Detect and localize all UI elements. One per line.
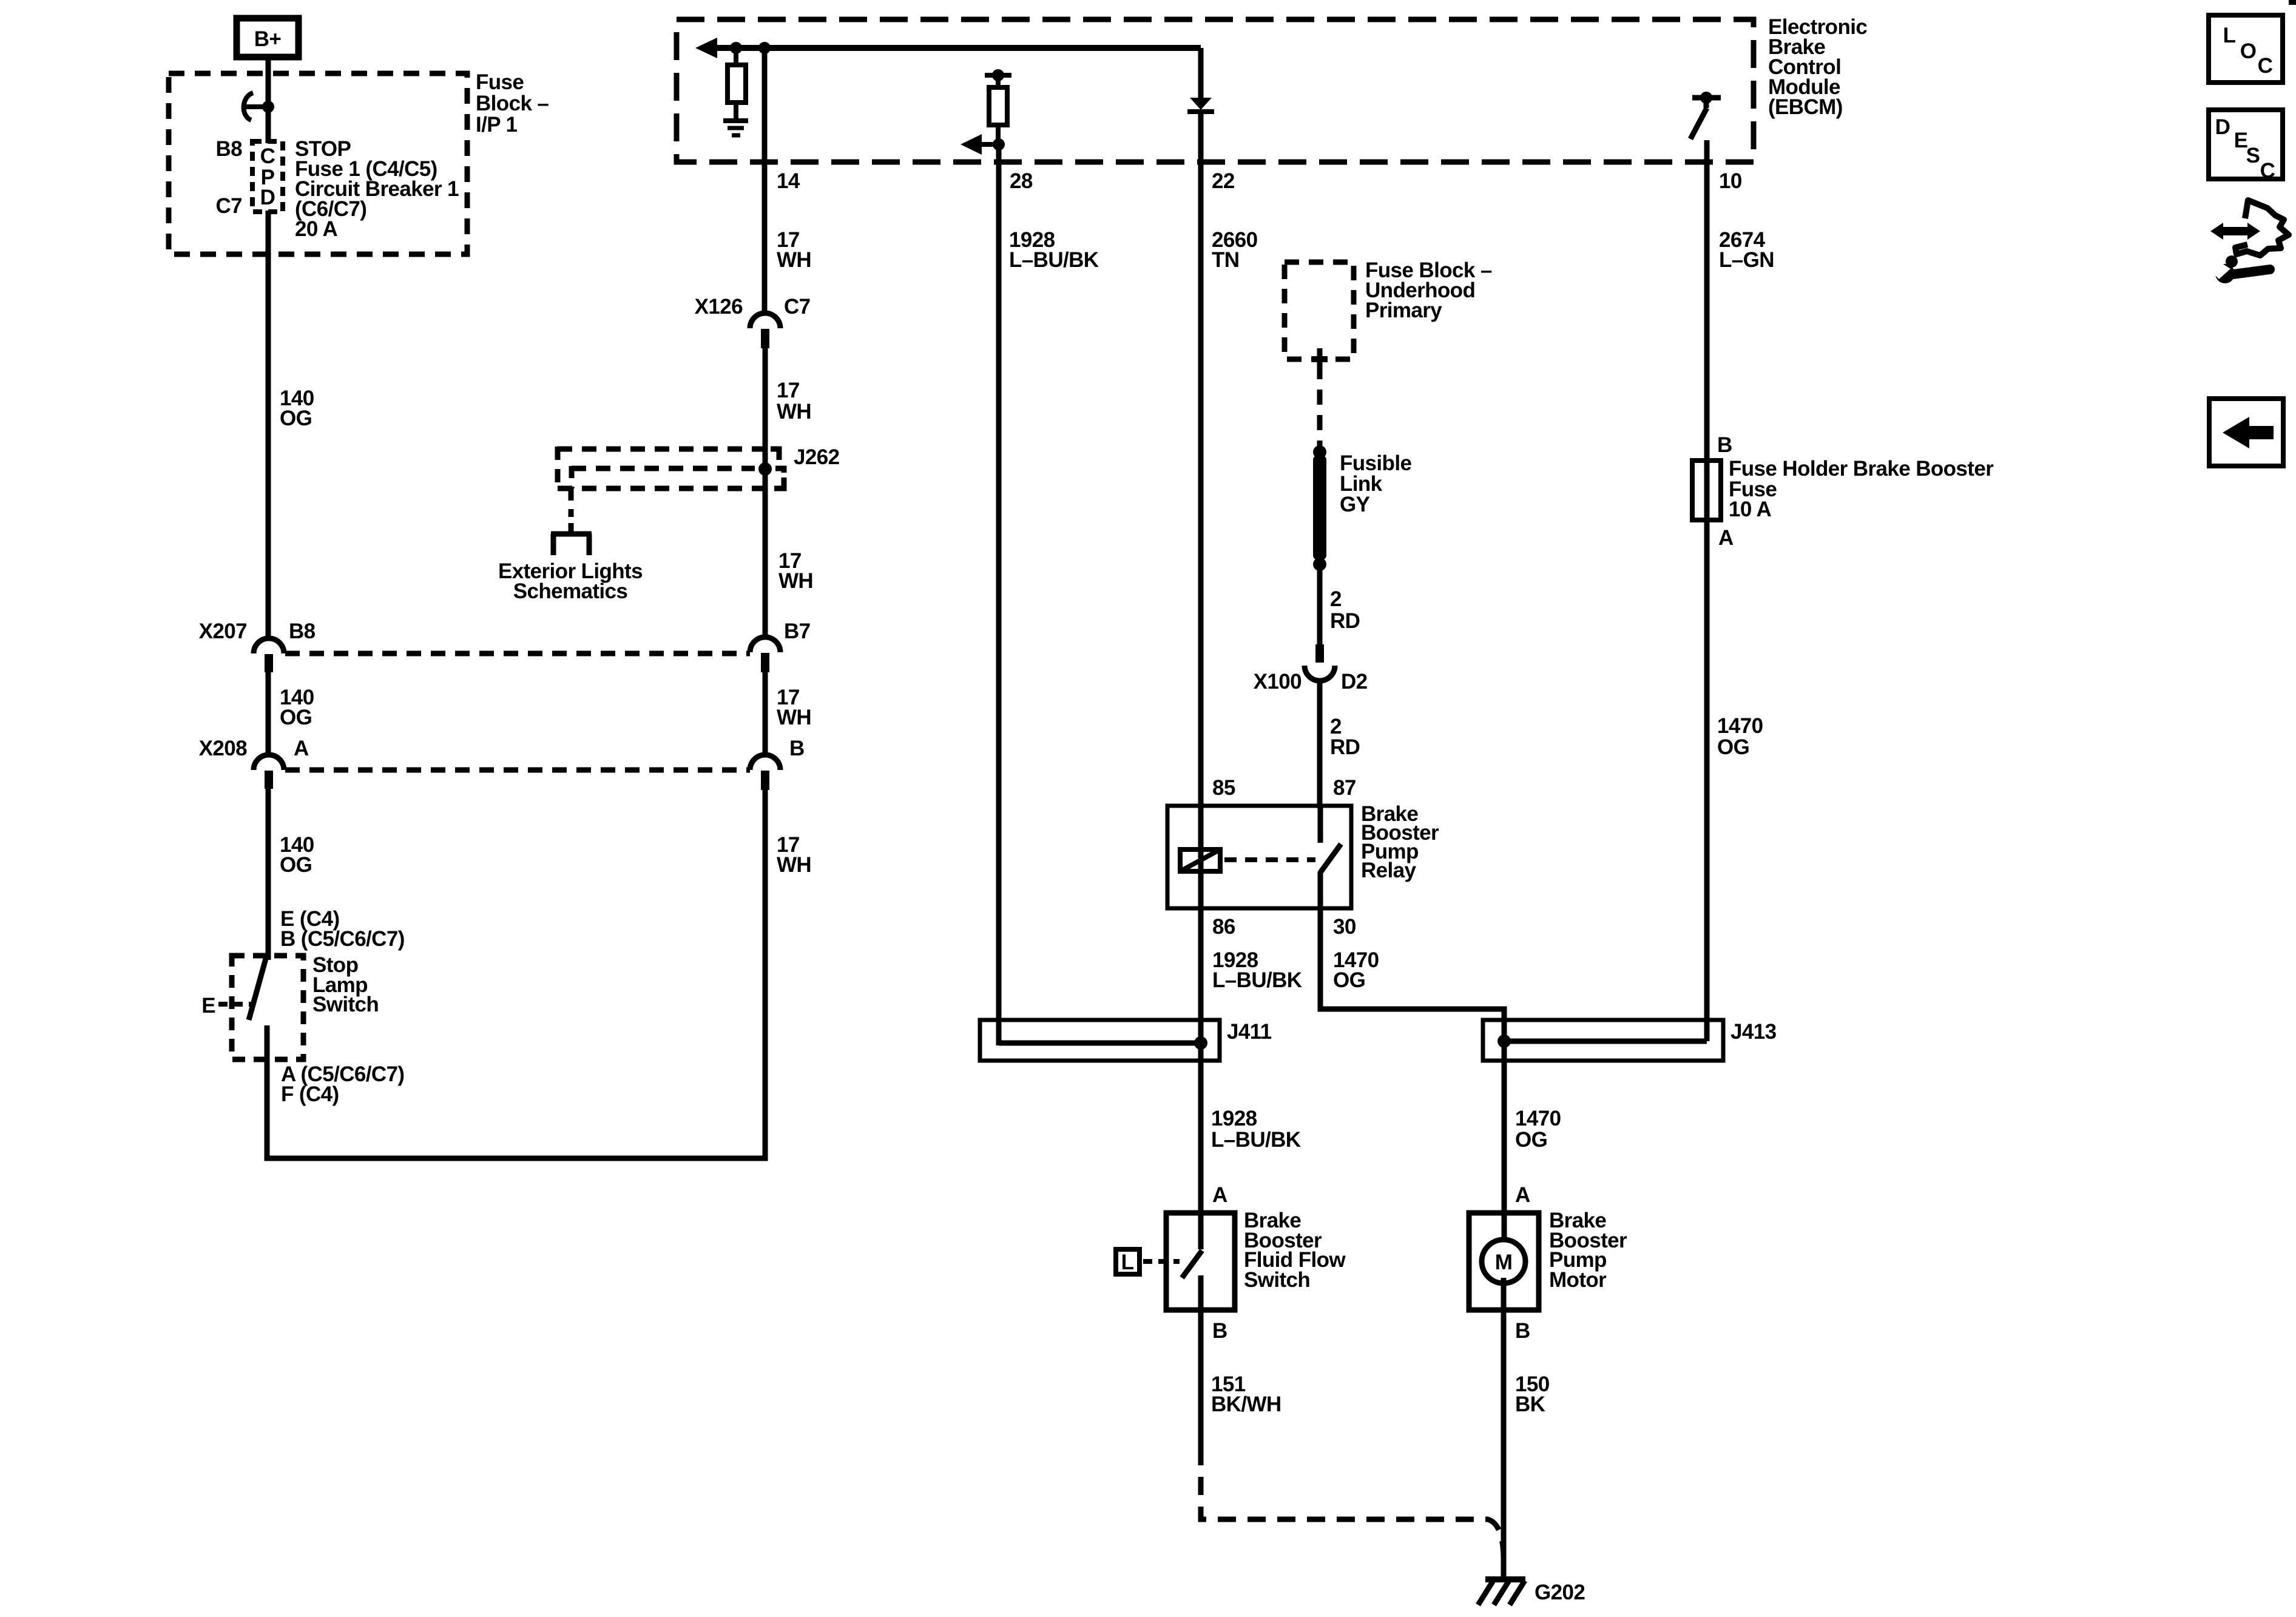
fuse holder brake booster fuse 10A [1692, 461, 1721, 520]
wire B+ to fuse block [266, 59, 271, 107]
junction node at circuit breaker [262, 101, 274, 113]
fuse block underhood primary dashed box [1285, 262, 1354, 359]
connector X126 pin C7 [750, 313, 780, 348]
node above fusible link [1313, 445, 1326, 459]
wire label 1928 L-BU/BK [1009, 228, 1099, 272]
wire 140 OG from fuse block to X207 [266, 211, 271, 640]
label Fuse Block I/P 1 [476, 70, 549, 137]
svg-text:D2: D2 [1341, 670, 1368, 694]
wire label 2674 L-GN [1719, 228, 1774, 272]
relay contact switch [1320, 806, 1341, 908]
wire down to fuse element [266, 107, 271, 143]
svg-text:Block –: Block – [476, 92, 549, 115]
terminal tick on underhood box [1312, 348, 1328, 364]
dashed wire to G202 [1201, 1447, 1504, 1559]
node pin 28 branch [993, 138, 1005, 150]
svg-text:(EBCM): (EBCM) [1768, 95, 1843, 119]
svg-text:OG: OG [280, 853, 312, 877]
back arrow icon [2209, 399, 2283, 466]
label Brake Booster Pump Relay [1361, 802, 1439, 882]
connector repair icon shell outline [2235, 200, 2289, 255]
connector X100 pin D2 [1305, 644, 1335, 681]
svg-text:20 A: 20 A [295, 217, 338, 241]
svg-text:J411: J411 [1227, 1020, 1272, 1044]
svg-text:L–BU/BK: L–BU/BK [1211, 1128, 1301, 1152]
node on bus at pin14 branch [758, 42, 771, 54]
svg-text:Switch: Switch [1244, 1268, 1310, 1292]
svg-text:30: 30 [1333, 915, 1356, 939]
circuit breaker 1 hook symbol [244, 93, 268, 120]
wire stop lamp switch A down and right [267, 784, 765, 1158]
internal bus wire with arrow [695, 38, 1201, 58]
wire through relay coil pin 85 to 86 [1198, 806, 1204, 908]
connector X208 pin A [254, 755, 284, 789]
svg-text:C: C [2258, 54, 2273, 78]
relay coil to contact dashed link [1224, 857, 1315, 862]
svg-text:17: 17 [777, 379, 800, 402]
ground G202 [1478, 1579, 1525, 1605]
node J262 [758, 462, 772, 476]
svg-text:J262: J262 [794, 445, 840, 469]
svg-text:L: L [2223, 24, 2236, 47]
svg-text:Switch: Switch [312, 993, 379, 1016]
fluid flow switch blade [1182, 1251, 1202, 1278]
fuse C-P-D element dashed box [252, 141, 283, 212]
fusible link GY element [1313, 455, 1326, 560]
svg-text:L–BU/BK: L–BU/BK [1009, 248, 1099, 272]
wire 150 BK from motor pin B to ground [1501, 1278, 1507, 1579]
dashed wire underhood to fusible link [1317, 364, 1323, 448]
brake booster pump motor box [1469, 1213, 1539, 1310]
svg-text:C: C [260, 144, 275, 168]
svg-text:B8: B8 [215, 137, 242, 161]
svg-text:14: 14 [777, 169, 800, 193]
pin label A (C5/C6/C7) F (C4) [281, 1062, 404, 1106]
label Brake Booster Fluid Flow Switch [1244, 1209, 1346, 1292]
fluid level sensor L box [1116, 1249, 1180, 1274]
wire EBCM pin 22 down to relay pin 85 [1198, 113, 1204, 808]
svg-text:S: S [2246, 144, 2260, 167]
connector repair icon wrench [2207, 255, 2270, 283]
svg-text:1928: 1928 [1211, 1107, 1257, 1130]
svg-text:J413: J413 [1730, 1020, 1777, 1044]
svg-text:B: B [1717, 433, 1732, 457]
svg-text:22: 22 [1212, 169, 1235, 193]
stop lamp switch blade [249, 959, 266, 1020]
splice J262 outer dashed box [558, 447, 779, 488]
wire label 1928 L-BU/BK below relay [1212, 948, 1302, 992]
internal signal arrow pin 28 [961, 134, 999, 155]
svg-text:B: B [1515, 1319, 1530, 1343]
wire label 17 WH [777, 228, 811, 272]
svg-text:B: B [789, 737, 805, 760]
svg-text:OG: OG [280, 407, 312, 430]
wire label 140 OG [280, 387, 314, 430]
internal ground [723, 121, 748, 135]
svg-text:86: 86 [1212, 915, 1235, 939]
wire label 2660 TN [1212, 228, 1258, 272]
svg-text:WH: WH [777, 248, 811, 272]
EBCM dashed box [677, 19, 1754, 162]
label Stop Lamp Switch [312, 953, 379, 1016]
svg-text:1470: 1470 [1717, 714, 1763, 738]
fuse block I/P 1 dashed box [169, 73, 467, 254]
label Brake Booster Pump Motor [1549, 1209, 1627, 1292]
wire 17 WH B7 to B [763, 672, 768, 756]
wire label 17 WH above stop lamp return [777, 833, 811, 877]
dashed harness line X208 to B [285, 768, 750, 773]
wire label 1928 L-BU/BK below J411 [1211, 1107, 1301, 1152]
svg-text:GY: GY [1340, 493, 1370, 516]
page edge mark [2289, 0, 2296, 5]
DESC icon [2209, 110, 2283, 183]
svg-text:1470: 1470 [1515, 1107, 1561, 1130]
dashed stub to exterior lights [569, 488, 574, 517]
brake booster fluid flow switch box [1166, 1213, 1235, 1310]
svg-text:C7: C7 [784, 295, 811, 319]
connector X207 pin B8 [254, 638, 284, 672]
svg-text:L–BU/BK: L–BU/BK [1212, 968, 1302, 992]
svg-text:B8: B8 [289, 619, 316, 643]
LOC icon [2209, 15, 2283, 83]
motor M circle [1482, 1240, 1525, 1283]
wire 2 RD X100 to relay pin 87 [1317, 680, 1323, 808]
svg-text:10 A: 10 A [1729, 498, 1772, 521]
svg-text:X126: X126 [695, 295, 743, 319]
svg-text:BK: BK [1515, 1393, 1545, 1416]
wire label 1470 OG below relay [1333, 948, 1379, 992]
node below fusible link [1313, 558, 1326, 571]
svg-text:85: 85 [1212, 776, 1235, 800]
internal diode pin 22 [1187, 48, 1214, 112]
splice J413 box [1483, 1020, 1723, 1061]
svg-text:A: A [1212, 1183, 1227, 1207]
wire 140 OG X208 to stop lamp switch [266, 789, 271, 960]
label Fusible Link GY [1340, 451, 1411, 516]
svg-text:L: L [1121, 1251, 1134, 1274]
wire label 1470 OG below J413 [1515, 1107, 1561, 1152]
label Exterior Lights Schematics [498, 559, 643, 603]
svg-text:Fuse: Fuse [476, 70, 524, 94]
relay coil [1180, 849, 1220, 871]
label Electronic Brake Control Module (EBCM) [1768, 15, 1867, 119]
svg-text:28: 28 [1010, 169, 1033, 193]
wire label 1470 OG right column [1717, 714, 1763, 759]
svg-text:E: E [201, 994, 215, 1018]
stop lamp switch dashed box [232, 956, 303, 1059]
svg-text:WH: WH [777, 853, 811, 877]
svg-text:10: 10 [1719, 169, 1742, 193]
dashed harness line X207 to B7 [285, 651, 750, 657]
B+ battery terminal [237, 18, 299, 57]
label Fuse Block Underhood Primary [1365, 258, 1492, 322]
wire 151 BK/WH from switch pin B [1198, 1310, 1204, 1447]
svg-text:B+: B+ [254, 27, 282, 51]
internal switch pin 10 [1690, 92, 1721, 139]
brake booster pump relay box [1167, 806, 1351, 908]
svg-text:TN: TN [1212, 248, 1239, 272]
svg-text:Primary: Primary [1365, 299, 1442, 322]
svg-text:B (C5/C6/C7): B (C5/C6/C7) [280, 927, 405, 951]
svg-text:2: 2 [1330, 587, 1342, 611]
svg-text:RD: RD [1330, 735, 1360, 759]
wire 2 RD fusible link to X100 [1317, 564, 1323, 644]
svg-text:D: D [2215, 115, 2230, 139]
exterior lights fork symbol [551, 523, 592, 555]
connector B7 [750, 637, 780, 672]
wire relay pin 30 down right to J413 [1320, 908, 1504, 1249]
svg-text:OG: OG [280, 706, 312, 729]
svg-text:B7: B7 [784, 619, 811, 643]
wire EBCM pin 28 down to J411 [996, 144, 1002, 1045]
svg-text:M: M [1495, 1251, 1513, 1274]
svg-text:Schematics: Schematics [513, 579, 628, 603]
internal resistor to ground [728, 48, 746, 120]
fluid flow switch lower contact [1198, 1275, 1204, 1310]
node on bus [730, 42, 742, 54]
svg-text:87: 87 [1333, 776, 1356, 800]
wire 140 OG X207 to X208 [266, 672, 271, 756]
svg-text:X207: X207 [199, 619, 247, 643]
pin label E (C4) B (C5/C6/C7) [280, 907, 405, 951]
svg-text:X208: X208 [199, 737, 247, 760]
svg-text:Relay: Relay [1361, 859, 1417, 882]
svg-text:L–GN: L–GN [1719, 248, 1774, 272]
stop lamp switch actuator E [201, 994, 251, 1018]
svg-text:BK/WH: BK/WH [1211, 1393, 1281, 1416]
svg-text:RD: RD [1330, 609, 1360, 633]
svg-text:OG: OG [1717, 735, 1749, 759]
splice J411 box [980, 1020, 1220, 1061]
svg-text:G202: G202 [1535, 1581, 1585, 1604]
svg-text:D: D [260, 186, 275, 209]
svg-text:I/P 1: I/P 1 [476, 113, 517, 137]
svg-text:A: A [1718, 526, 1734, 550]
svg-text:X100: X100 [1254, 670, 1302, 694]
stop lamp switch lower contact [265, 1025, 270, 1059]
svg-text:F (C4): F (C4) [281, 1082, 339, 1106]
svg-text:WH: WH [777, 400, 811, 424]
splice J262 inner dashed box [558, 466, 784, 488]
wire EBCM pin 14 [762, 48, 768, 314]
internal pull-up resistor pin 28 [985, 69, 1011, 144]
svg-text:A: A [294, 737, 309, 760]
wire relay pin 86 down to J411 and switch [1198, 908, 1204, 1249]
wire 17 WH X126 to J262 [763, 348, 768, 638]
wire label 17 WH below J262 [778, 549, 813, 593]
connector B [750, 755, 780, 790]
connector repair icon double arrow [2210, 223, 2260, 240]
wire EBCM pin 10 down to fuse holder [1704, 140, 1710, 1041]
svg-text:Motor: Motor [1549, 1268, 1607, 1292]
svg-text:B: B [1212, 1319, 1227, 1343]
svg-text:WH: WH [777, 706, 811, 729]
svg-text:OG: OG [1333, 968, 1365, 992]
svg-text:C7: C7 [215, 194, 242, 218]
svg-text:O: O [2240, 39, 2257, 63]
svg-text:C: C [2260, 159, 2275, 183]
label STOP Fuse 1 Circuit Breaker 1 [295, 137, 459, 241]
svg-text:OG: OG [1515, 1128, 1547, 1152]
svg-text:WH: WH [778, 569, 813, 593]
svg-text:A: A [1515, 1183, 1530, 1207]
